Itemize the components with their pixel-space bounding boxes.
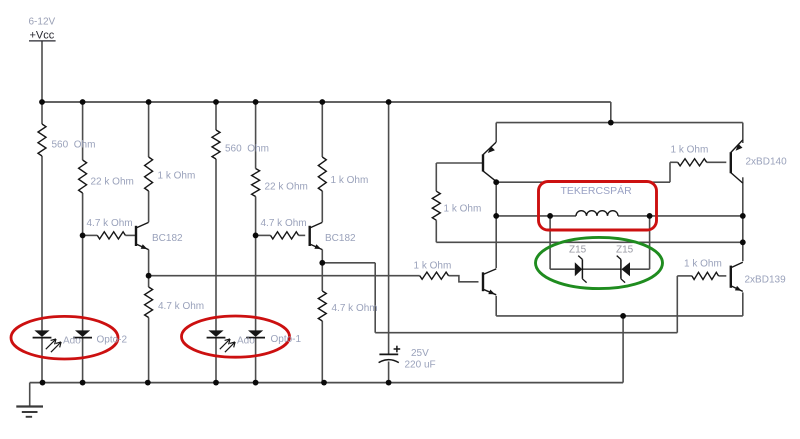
node Q3 collector bbox=[493, 179, 499, 185]
resistor R9 4.7 k Ohm bbox=[271, 232, 299, 239]
svg-text:6-12V: 6-12V bbox=[29, 17, 56, 28]
svg-text:25V: 25V bbox=[411, 348, 429, 359]
node Q2 emitter bbox=[319, 260, 325, 266]
zener diode Z15 left bbox=[575, 256, 587, 283]
svg-text:Z15: Z15 bbox=[616, 245, 634, 256]
resistor R4 4.7 k Ohm bbox=[97, 232, 125, 239]
wire Q1 emitter node to 4.7k bbox=[148, 276, 150, 287]
wire emitter rail y316 bbox=[496, 315, 743, 317]
wire R2 to node bbox=[82, 193, 84, 235]
wire Q3 emitter riser bbox=[495, 123, 497, 142]
svg-text:560 Ohm: 560 Ohm bbox=[52, 140, 96, 151]
wire run y332 to BD139 branch bbox=[375, 332, 677, 334]
transistor Q2 BC182 bbox=[310, 222, 323, 249]
wire R13 to Q5 base bbox=[707, 161, 727, 163]
wire LED4 to ground bus bbox=[255, 338, 257, 383]
label 22 k Ohm R6 bbox=[265, 182, 308, 193]
transistor Q4 NPN driver bbox=[483, 269, 496, 295]
label Z15 left bbox=[569, 245, 587, 256]
transistor Q6 2xBD139 bbox=[731, 262, 743, 291]
svg-text:560 Ohm: 560 Ohm bbox=[225, 144, 269, 155]
LED D3 Ado bbox=[207, 330, 226, 337]
LED D3 emission arrows bbox=[220, 339, 235, 352]
label 4.7 k Ohm R9 bbox=[261, 218, 307, 229]
label Ado D1 bbox=[63, 336, 81, 347]
wire top bus to capacitor bbox=[388, 102, 390, 354]
wire R11 bottom to y242 run bbox=[435, 220, 437, 242]
wire between zeners bbox=[582, 268, 621, 270]
svg-text:Ado: Ado bbox=[63, 336, 81, 347]
wire R12 to Q6 base bbox=[719, 275, 727, 277]
wire Q4 emitter drop bbox=[495, 296, 497, 316]
wire Q5 collector drop bbox=[742, 177, 744, 216]
label Ado D3 bbox=[237, 336, 255, 347]
node Q2 base divider bbox=[253, 233, 259, 239]
node dots top bus bbox=[39, 99, 391, 105]
transistor Q3 PNP driver bbox=[483, 142, 496, 181]
wire 1k-R7 top lead bbox=[321, 102, 323, 157]
wire motor rail left bbox=[496, 215, 550, 217]
wire top supply bus bbox=[42, 101, 611, 103]
svg-text:Opto-2: Opto-2 bbox=[97, 335, 128, 346]
wire zener left lead bbox=[550, 268, 575, 270]
wire coil right lead bbox=[618, 215, 650, 217]
label 1 k Ohm R3 bbox=[158, 171, 196, 182]
node coil right bbox=[647, 213, 653, 219]
label 2xBD139 bbox=[745, 275, 787, 286]
capacitor C1 220uF polarized bbox=[379, 346, 401, 363]
wire node to LED2 bbox=[82, 235, 84, 330]
label BC182 Q2 bbox=[325, 233, 356, 244]
node dots ground bus bbox=[40, 380, 392, 386]
svg-text:1 k Ohm: 1 k Ohm bbox=[414, 261, 452, 272]
wire Q2 emitter right bbox=[322, 262, 375, 264]
wire emitter rail to ground bus bbox=[622, 316, 624, 383]
transistor Q5 2xBD140 bbox=[731, 140, 743, 183]
svg-text:BC182: BC182 bbox=[152, 233, 183, 244]
wire Q3 collector node drop bbox=[495, 182, 497, 216]
label 220 uF bbox=[405, 360, 436, 371]
wire 1k-R3 top lead bbox=[148, 102, 150, 157]
wire Q2 node to 4.7k bbox=[321, 263, 323, 291]
wire base to R11 top bbox=[435, 163, 437, 191]
wire R3 to Q1 collector bbox=[148, 191, 150, 222]
node Q1 base divider bbox=[80, 233, 86, 239]
svg-text:22 k Ohm: 22 k Ohm bbox=[91, 177, 134, 188]
wire bottom ground bus bbox=[30, 382, 623, 384]
label 4.7 k Ohm R8a bbox=[158, 301, 204, 312]
wire Q1 emitter to R10 bbox=[149, 275, 420, 277]
annotation green ellipse zeners bbox=[536, 237, 663, 288]
wire base resistor R4 leads bbox=[83, 234, 136, 236]
label 560 Ohm R5 bbox=[225, 144, 269, 155]
wire zener left drop bbox=[549, 216, 551, 269]
resistor R8b 4.7 k Ohm bbox=[318, 291, 326, 321]
LED D1 emission arrows bbox=[46, 339, 61, 352]
wire base resistor R9 leads bbox=[256, 234, 306, 236]
node Q1 emitter bbox=[146, 273, 152, 279]
resistor R1 560 Ohm bbox=[38, 124, 46, 156]
svg-text:4.7 k Ohm: 4.7 k Ohm bbox=[261, 218, 307, 229]
svg-text:4.7 k Ohm: 4.7 k Ohm bbox=[87, 218, 133, 229]
svg-text:1 k Ohm: 1 k Ohm bbox=[331, 175, 369, 186]
resistor R8a 4.7 k Ohm bbox=[145, 287, 153, 318]
wire run y242 to BD139 collector bbox=[436, 241, 743, 243]
label 560 Ohm R1 bbox=[52, 140, 96, 151]
wire to R12 bbox=[677, 275, 692, 277]
wire drop x375 bbox=[374, 263, 376, 333]
wire ground stem bbox=[29, 383, 31, 407]
wire R7 to Q2 collector bbox=[321, 191, 323, 222]
inductor L1 coil pair bbox=[576, 211, 618, 216]
wire LED2 to ground bus bbox=[82, 338, 84, 383]
label 1 k Ohm R7 bbox=[331, 175, 369, 186]
LED D4 Opto-1 bbox=[246, 330, 265, 337]
wire node to Q6 collector bbox=[742, 216, 744, 261]
transistor Q1 BC182 bbox=[136, 222, 149, 249]
wire R1 to LED1 bbox=[41, 156, 43, 331]
svg-text:BC182: BC182 bbox=[325, 233, 356, 244]
node coil left bbox=[547, 213, 553, 219]
svg-text:2xBD139: 2xBD139 bbox=[745, 275, 787, 286]
wire Q5 emitter riser bbox=[742, 123, 744, 143]
wire Q3 collector to BD140 base corner bbox=[496, 181, 670, 183]
resistor R2 22 k Ohm bbox=[79, 160, 87, 193]
resistor R12 1 k Ohm bbox=[692, 272, 719, 279]
LED D1 Ado bbox=[33, 330, 52, 337]
resistor R3 1 k Ohm bbox=[145, 157, 153, 191]
svg-text:4.7 k Ohm: 4.7 k Ohm bbox=[332, 303, 378, 314]
wire motor rail right bbox=[650, 215, 743, 217]
label 1 k Ohm R12 bbox=[684, 259, 722, 270]
wire 560-R1 top lead bbox=[41, 102, 43, 124]
wire zener right drop bbox=[649, 216, 651, 269]
wire 4.7k-R8 to ground bus bbox=[321, 321, 323, 383]
node emitter rail ground tap bbox=[620, 313, 626, 319]
node inner rail tap bbox=[608, 120, 614, 126]
wire coil left lead bbox=[550, 215, 576, 217]
annotation red box TEKERCSPAR bbox=[539, 182, 657, 231]
wire R6 to node bbox=[255, 197, 257, 236]
label 22 k Ohm R2 bbox=[91, 177, 134, 188]
svg-text:+Vcc: +Vcc bbox=[30, 29, 55, 41]
ground bbox=[16, 407, 43, 417]
zener diode Z15 right bbox=[617, 256, 630, 283]
wire R5 to LED3 bbox=[215, 159, 217, 331]
label +Vcc bbox=[29, 29, 56, 41]
svg-text:Opto-1: Opto-1 bbox=[271, 334, 302, 345]
wire node to LED4 bbox=[255, 235, 257, 330]
label Z15 right bbox=[616, 245, 634, 256]
resistor R10 1 k Ohm bbox=[420, 272, 449, 279]
wire corner riser x670 bbox=[669, 162, 671, 182]
wire top bus drop to inner rail bbox=[610, 102, 612, 123]
node left motor terminal A bbox=[493, 213, 499, 219]
svg-text:4.7 k Ohm: 4.7 k Ohm bbox=[158, 301, 204, 312]
svg-text:1 k Ohm: 1 k Ohm bbox=[684, 259, 722, 270]
label 4.7 k Ohm R4 bbox=[87, 218, 133, 229]
wire R10 to Q4 base step bbox=[449, 276, 479, 282]
wire zener right lead bbox=[630, 268, 650, 270]
label BC182 Q1 bbox=[152, 233, 183, 244]
svg-text:Ado: Ado bbox=[237, 336, 255, 347]
wire 560-R5 top lead bbox=[215, 102, 217, 130]
label 2xBD140 bbox=[746, 157, 788, 168]
svg-text:Z15: Z15 bbox=[569, 245, 587, 256]
svg-text:1 k Ohm: 1 k Ohm bbox=[158, 171, 196, 182]
label 1 k Ohm R10 bbox=[414, 261, 452, 272]
wire +Vcc feed bbox=[41, 41, 43, 102]
wire 22k-R6 top lead bbox=[255, 102, 257, 169]
wire LED1 to ground bus bbox=[41, 338, 43, 383]
wire LED3 to ground bus bbox=[215, 338, 217, 383]
node BD139 collector tap bbox=[740, 239, 746, 245]
resistor R7 1 k Ohm bbox=[318, 157, 326, 191]
annotation red ellipse Opto-1 pair bbox=[182, 316, 290, 357]
label 6-12V bbox=[29, 17, 56, 28]
wire to R13 bbox=[670, 161, 678, 163]
resistor R13 1 k Ohm bbox=[678, 159, 707, 166]
svg-text:TEKERCSPÁR: TEKERCSPÁR bbox=[561, 184, 633, 197]
wire Q6 emitter drop bbox=[742, 292, 744, 316]
svg-text:2xBD140: 2xBD140 bbox=[746, 157, 788, 168]
wire Q2 emitter drop bbox=[321, 250, 323, 263]
annotation red ellipse Opto-2 pair bbox=[11, 316, 118, 359]
wire node drop to Q4 collector bbox=[495, 216, 497, 268]
wire capacitor to ground bus bbox=[388, 362, 390, 383]
wire 4.7k to ground bus bbox=[148, 318, 150, 383]
resistor R11 1 k Ohm bbox=[432, 191, 440, 220]
label 25V bbox=[411, 348, 429, 359]
LED D2 Opto-2 bbox=[73, 330, 92, 337]
wire inner top rail bbox=[496, 122, 743, 124]
label 1 k Ohm R11 bbox=[444, 204, 482, 215]
label 1 k Ohm R13 bbox=[671, 145, 709, 156]
label TEKERCSPAR bbox=[561, 184, 633, 197]
wire Q1 emitter drop bbox=[148, 250, 150, 276]
resistor R5 560 Ohm bbox=[212, 130, 220, 159]
wire 22k-R2 top lead bbox=[82, 102, 84, 160]
label 4.7 k Ohm R8b bbox=[332, 303, 378, 314]
svg-text:220 uF: 220 uF bbox=[405, 360, 436, 371]
wire riser x677 bbox=[676, 276, 678, 333]
svg-text:1 k Ohm: 1 k Ohm bbox=[444, 204, 482, 215]
svg-text:1 k Ohm: 1 k Ohm bbox=[671, 145, 709, 156]
wire Q3 base bbox=[436, 162, 483, 164]
label Opto-1 bbox=[271, 334, 302, 345]
resistor R6 22 k Ohm bbox=[252, 169, 260, 197]
node right motor terminal B bbox=[740, 213, 746, 219]
label Opto-2 bbox=[97, 335, 128, 346]
svg-text:22 k Ohm: 22 k Ohm bbox=[265, 182, 308, 193]
